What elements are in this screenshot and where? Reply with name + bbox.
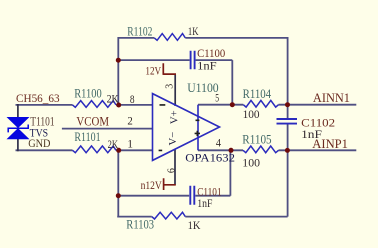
svg-text:CH56_63: CH56_63: [16, 92, 60, 105]
svg-text:R1103: R1103: [126, 217, 154, 231]
svg-text:2K: 2K: [107, 92, 119, 106]
svg-text:R1105: R1105: [242, 133, 271, 147]
svg-text:12V: 12V: [145, 66, 161, 78]
svg-text:n12V: n12V: [141, 180, 162, 192]
svg-text:8: 8: [130, 93, 135, 106]
svg-text:GND: GND: [28, 138, 50, 150]
svg-text:V−: V−: [167, 132, 179, 146]
svg-text:VCOM: VCOM: [76, 114, 109, 128]
svg-text:1nF: 1nF: [197, 59, 217, 73]
svg-text:2: 2: [127, 114, 133, 127]
svg-text:3: 3: [164, 84, 175, 89]
svg-text:V+: V+: [169, 110, 181, 124]
svg-text:4: 4: [216, 136, 221, 149]
svg-text:1nF: 1nF: [197, 196, 213, 210]
svg-text:T1101: T1101: [30, 115, 54, 129]
svg-text:R1101: R1101: [74, 130, 100, 144]
svg-text:2K: 2K: [108, 137, 119, 151]
svg-text:100: 100: [243, 107, 260, 121]
svg-text:5: 5: [215, 92, 219, 105]
svg-text:1K: 1K: [188, 218, 201, 232]
svg-text:AINN1: AINN1: [313, 91, 350, 105]
svg-text:1K: 1K: [188, 24, 199, 38]
svg-text:R1104: R1104: [243, 87, 272, 101]
svg-text:OPA1632: OPA1632: [185, 151, 235, 165]
svg-text:1: 1: [127, 137, 133, 150]
svg-text:100: 100: [242, 156, 260, 170]
svg-text:U1100: U1100: [187, 81, 219, 95]
svg-text:6: 6: [166, 168, 177, 173]
svg-text:R1100: R1100: [74, 86, 102, 100]
svg-text:R1102: R1102: [127, 25, 152, 39]
svg-text:1nF: 1nF: [301, 127, 322, 141]
